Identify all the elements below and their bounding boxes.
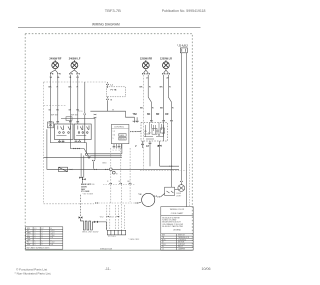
EOC leg connectors <box>113 146 121 147</box>
svg-text:BR: BR <box>156 114 160 116</box>
dropper wire 3 <box>129 148 131 202</box>
wire J1 neutral <box>186 53 188 207</box>
svg-text:-11-: -11- <box>105 267 112 271</box>
broil element exit wire <box>98 222 107 230</box>
motor left terminal <box>136 202 141 203</box>
terminal row labels <box>107 181 131 183</box>
oven light <box>178 182 185 191</box>
EOC interior marks <box>113 131 116 140</box>
fuse block connector <box>70 169 73 170</box>
svg-text:2B: 2B <box>76 77 79 79</box>
svg-text:BAKE: BAKE <box>120 134 126 137</box>
svg-text:N: N <box>111 100 113 102</box>
relay broil <box>119 137 126 140</box>
thermal limiter <box>84 111 87 142</box>
svg-text:WIRING DIAGRAM: WIRING DIAGRAM <box>92 23 120 27</box>
svg-text:TBF3-7B: TBF3-7B <box>105 8 121 13</box>
svg-text:BROIL: BROIL <box>120 139 125 141</box>
door switch <box>165 187 175 195</box>
svg-text:W: W <box>119 181 121 183</box>
broil element connector <box>79 216 83 218</box>
svg-text:2: 2 <box>42 244 43 246</box>
switch 1 leg connectors <box>58 141 64 142</box>
broil element label <box>82 232 98 234</box>
dropper wire 1 <box>110 171 112 204</box>
surface element LR <box>163 60 170 68</box>
motor right terminals <box>154 194 164 198</box>
wire RR left <box>143 75 145 169</box>
surface element RF <box>52 60 59 68</box>
wire LR left <box>163 75 165 141</box>
node neutral junction <box>109 168 112 171</box>
wire labels right burners <box>140 87 175 110</box>
svg-text:2400W LF: 2400W LF <box>69 58 81 61</box>
wire entry connectors <box>49 121 79 122</box>
switch chart text <box>27 228 55 249</box>
connector J1 <box>180 48 187 53</box>
wire LF left <box>69 75 71 149</box>
svg-text:3 4: 3 4 <box>113 135 116 137</box>
legend color codes <box>162 216 184 228</box>
svg-text:L1: L1 <box>111 84 114 86</box>
svg-text:GND: GND <box>102 163 107 165</box>
svg-text:BK: BK <box>69 87 73 89</box>
terminal block P1 <box>106 87 125 97</box>
svg-text:* 240V CIRC: * 240V CIRC <box>128 239 139 241</box>
svg-text:W: W <box>112 110 114 112</box>
svg-text:R: R <box>107 181 109 183</box>
node junction B <box>88 156 90 158</box>
svg-text:SW CHART SURFACE UNITS: SW CHART SURFACE UNITS <box>27 246 51 249</box>
console bottom terminal <box>95 202 98 203</box>
legend title <box>170 209 185 215</box>
oven control EOC <box>111 124 128 143</box>
chassis dashed border <box>25 34 192 251</box>
wire labels left burners <box>49 87 80 112</box>
svg-text:P2 PLUG: P2 PLUG <box>108 236 116 238</box>
node junction C <box>112 171 115 174</box>
title WIRING DIAGRAM <box>92 23 120 27</box>
svg-text:TCO: TCO <box>78 111 83 113</box>
EOC leg labels <box>113 150 120 152</box>
svg-text:* Non-Illustrated Parts List.: * Non-Illustrated Parts List. <box>15 272 52 276</box>
relay bake <box>119 134 126 137</box>
svg-text:W13: W13 <box>110 216 114 218</box>
svg-text:BK: BK <box>140 87 144 89</box>
svg-text:S1: S1 <box>49 110 52 112</box>
bake element label <box>81 183 92 193</box>
terminal EOC top <box>133 121 139 122</box>
wire motor feed <box>98 202 135 204</box>
svg-text:JUMPER: JUMPER <box>178 249 186 251</box>
header rule <box>18 26 201 28</box>
connector L1 lower <box>92 160 95 169</box>
terminal row <box>110 183 132 184</box>
svg-text:TB2: TB2 <box>133 114 138 116</box>
svg-text:R: R <box>77 87 79 89</box>
svg-text:J 240: J 240 <box>90 184 94 186</box>
oven thermostat labels top <box>133 114 169 116</box>
svg-text:1250W RR: 1250W RR <box>140 58 152 61</box>
infinite switch 1 legs <box>50 140 86 154</box>
wire RF right <box>57 75 59 124</box>
svg-text:* BK TO BKR: * BK TO BKR <box>82 193 93 195</box>
bake element lower wire <box>80 195 82 217</box>
surface element RF terminals <box>50 69 60 75</box>
svg-text:R: R <box>172 108 174 110</box>
svg-text:R: R <box>158 146 160 148</box>
svg-text:3: 3 <box>119 150 120 152</box>
svg-text:5: 5 <box>113 138 114 140</box>
console dashed outline <box>44 82 107 204</box>
oven light terminal <box>180 181 183 182</box>
fuse block <box>59 167 68 171</box>
svg-text:V: V <box>135 146 137 148</box>
chassis inner dashed wire <box>188 164 190 207</box>
svg-text:P1 TB: P1 TB <box>111 89 117 91</box>
broil element coil <box>81 218 95 230</box>
connector before junction <box>105 169 108 170</box>
svg-text:10/06: 10/06 <box>202 267 211 271</box>
svg-text:J1: J1 <box>162 249 164 251</box>
oven thermostat <box>141 123 168 142</box>
wire RR right <box>148 75 151 123</box>
svg-text:H1: H1 <box>56 110 60 112</box>
dropper wire 2 <box>120 148 122 184</box>
wire dashed lower right <box>140 169 187 171</box>
wire EOC legs <box>114 144 122 149</box>
switch 2 leg connectors <box>73 141 81 150</box>
terminal block P1 lower terminal <box>106 97 109 112</box>
svg-text:2C: 2C <box>146 78 149 80</box>
infinite switch 2 legs <box>70 140 89 158</box>
header publication number text <box>162 9 206 13</box>
svg-text:OR: OR <box>165 114 169 116</box>
surface switch chart <box>26 227 63 249</box>
branch wires to plug <box>107 184 125 230</box>
wire riser left <box>47 129 179 169</box>
svg-text:CODE CHART: CODE CHART <box>171 212 184 215</box>
svg-text:LEGEND: LEGEND <box>173 230 181 232</box>
oven thermostat labels bottom <box>135 146 160 148</box>
svg-text:WW: WW <box>27 244 31 246</box>
oven light label <box>176 193 182 197</box>
svg-text:* M: * M <box>138 194 141 196</box>
svg-text:S2: S2 <box>69 110 72 112</box>
terminal block P1 upper terminal <box>106 82 109 88</box>
thermal limiter wire <box>84 82 86 111</box>
surface element LF <box>71 60 78 68</box>
wire bus L1 lower <box>44 156 122 158</box>
svg-text:R: R <box>152 108 154 110</box>
svg-text:N: N <box>116 174 118 176</box>
svg-text:WIRING COLOR: WIRING COLOR <box>170 209 185 211</box>
connector on neutral line <box>94 169 97 170</box>
svg-text:INF SW: INF SW <box>51 114 58 116</box>
legend box <box>161 207 193 251</box>
infinite switch 1 <box>55 124 74 140</box>
wire bus L1 upper <box>88 153 122 155</box>
thermostat leg connectors <box>141 143 161 147</box>
dropper wire 1a <box>110 148 112 168</box>
svg-text:1A: 1A <box>50 76 53 79</box>
wire riser to EOC <box>121 144 123 154</box>
inline connector W1 <box>100 216 109 219</box>
harness link wire <box>61 117 95 119</box>
bake element feed wires <box>81 153 84 177</box>
footer copyright <box>15 268 52 276</box>
svg-text:W12: W12 <box>100 216 104 218</box>
oven thermostat legs <box>142 141 159 166</box>
wire bus L1 mid <box>90 155 122 157</box>
svg-text:1B: 1B <box>69 77 72 79</box>
svg-text:1: 1 <box>113 150 114 152</box>
connector L1 <box>94 114 96 160</box>
svg-text:INF SW: INF SW <box>71 114 78 116</box>
svg-text:R: R <box>149 87 151 89</box>
wire LR right <box>168 75 171 188</box>
wire J1 to oven light <box>180 53 182 181</box>
inline connector W2 <box>110 216 119 219</box>
svg-text:Publication No. 5995419118: Publication No. 5995419118 <box>162 9 206 13</box>
surface element RR <box>142 60 149 68</box>
svg-text:5995419118: 5995419118 <box>100 249 113 251</box>
svg-text:GY: GY <box>146 146 150 148</box>
infinite switch 2 <box>74 124 91 140</box>
wire P1 to EOC <box>90 111 137 122</box>
wire terminal row dashed <box>103 183 135 185</box>
svg-text:1: 1 <box>35 244 36 246</box>
svg-text:* J1-A,B,2: * J1-A,B,2 <box>177 44 188 47</box>
surface element LF terminals <box>69 69 79 75</box>
svg-text:1 2: 1 2 <box>113 131 116 133</box>
svg-text:BK: BK <box>140 108 144 110</box>
header model number text <box>105 8 121 13</box>
svg-text:BK: BK <box>147 114 151 116</box>
convection motor <box>142 193 155 206</box>
bake element connector <box>79 177 85 184</box>
node junction A <box>85 153 87 155</box>
terminal pair EOC right <box>130 131 141 132</box>
wire LF right <box>77 75 79 124</box>
surface element RR terminals <box>142 69 150 75</box>
svg-text:2: 2 <box>116 150 117 152</box>
svg-text:BK: BK <box>160 108 164 110</box>
svg-text:2D: 2D <box>166 78 169 80</box>
svg-text:BROIL UNIT 3000W: BROIL UNIT 3000W <box>82 232 98 234</box>
surface element LR terminals <box>162 69 170 75</box>
svg-text:BL-BLUE T-TAN PK-PINK: BL-BLUE T-TAN PK-PINK <box>162 225 184 228</box>
legend table text <box>162 235 190 251</box>
wire door switch to light <box>175 189 178 191</box>
connector block P2 <box>107 230 125 235</box>
harness link block <box>66 117 72 121</box>
wire RF left <box>49 75 51 143</box>
burner terminal labels <box>50 76 170 79</box>
svg-text:R: R <box>57 87 59 89</box>
svg-text:R: R <box>169 87 171 89</box>
svg-text:1250W LR: 1250W LR <box>160 58 172 61</box>
right wire connectors <box>150 120 173 121</box>
svg-text:BK: BK <box>49 87 53 89</box>
svg-text:1-4: 1-4 <box>51 244 54 246</box>
terminal oven light feed <box>170 166 173 167</box>
pilot lamp block <box>48 122 54 128</box>
svg-text:CONTROL: CONTROL <box>114 126 125 128</box>
svg-text:BK: BK <box>160 87 164 89</box>
broil element exit connector <box>94 221 98 223</box>
svg-text:LIGHT: LIGHT <box>176 195 182 197</box>
svg-text:2400W RF: 2400W RF <box>49 58 61 61</box>
wire oven light feed <box>160 165 179 167</box>
svg-text:2A: 2A <box>57 76 60 79</box>
